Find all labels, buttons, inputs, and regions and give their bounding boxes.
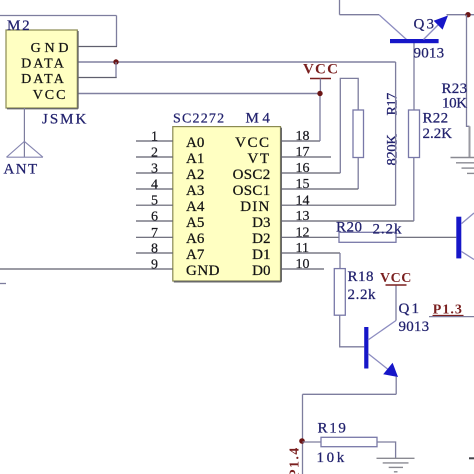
svg-text:Q1: Q1 bbox=[399, 301, 422, 317]
svg-text:VCC: VCC bbox=[303, 61, 339, 77]
wire DATA2 pin of M2 bbox=[77, 77, 117, 79]
transistor Q3 emitter slant bbox=[424, 17, 447, 40]
resistor R20 body bbox=[339, 232, 396, 242]
svg-text:R20: R20 bbox=[336, 220, 363, 236]
svg-text:ANT: ANT bbox=[4, 162, 39, 178]
power VCC symbol top bbox=[310, 79, 331, 94]
node junction on DATA wire bbox=[113, 59, 118, 64]
transistor Q3 emitter arrow bbox=[434, 16, 448, 30]
svg-text:6: 6 bbox=[151, 210, 158, 225]
svg-text:13: 13 bbox=[296, 209, 310, 224]
svg-text:DATA: DATA bbox=[21, 72, 66, 87]
svg-text:VCC: VCC bbox=[380, 271, 412, 286]
svg-text:10K: 10K bbox=[442, 96, 467, 112]
resistor R22 body bbox=[409, 110, 420, 158]
svg-text:D1: D1 bbox=[252, 247, 270, 263]
wire emitter bottom horizontal bbox=[303, 393, 397, 395]
ground under R23 bbox=[451, 158, 474, 174]
pin 7 wire bbox=[136, 236, 173, 238]
wire riser pin13 to R22 bbox=[413, 158, 415, 222]
svg-text:P1.4: P1.4 bbox=[288, 446, 303, 474]
wire GND pin of M2 bbox=[77, 46, 117, 48]
wire stub at left edge bbox=[0, 283, 6, 285]
wire R19 left bbox=[303, 441, 322, 443]
wire R23 riser from junction bbox=[467, 15, 470, 127]
pin 13 wire bbox=[281, 220, 414, 222]
svg-text:VT: VT bbox=[248, 151, 271, 167]
svg-text:M4: M4 bbox=[246, 110, 274, 126]
wire riser pin11 to R18 bbox=[339, 253, 341, 269]
svg-text:OSC2: OSC2 bbox=[233, 167, 271, 183]
svg-text:12: 12 bbox=[296, 226, 310, 241]
svg-text:A2: A2 bbox=[186, 167, 204, 183]
module M2 body bbox=[6, 30, 78, 109]
node junction at R19 bbox=[299, 438, 305, 444]
antenna ANT symbol bbox=[7, 141, 43, 157]
wire down left vertical to bottom edge bbox=[302, 394, 304, 474]
svg-text:8: 8 bbox=[151, 242, 158, 257]
svg-text:9: 9 bbox=[151, 258, 158, 273]
pin 16 wire bbox=[281, 172, 340, 174]
transistor Q1 emitter arrow bbox=[383, 363, 398, 377]
svg-text:DATA: DATA bbox=[21, 57, 66, 72]
svg-text:M2: M2 bbox=[7, 18, 31, 34]
port P1.3 underline bbox=[433, 315, 464, 317]
pin 12 wire to Q2 base bbox=[281, 236, 456, 238]
svg-text:A6: A6 bbox=[186, 231, 205, 247]
resistor R17 body bbox=[353, 110, 364, 158]
wire DATA pin of M2 to DIN riser bbox=[77, 61, 396, 63]
svg-text:VCC: VCC bbox=[235, 135, 270, 151]
svg-text:9013: 9013 bbox=[414, 46, 445, 62]
svg-text:A5: A5 bbox=[186, 215, 204, 231]
wire antenna stem bbox=[23, 108, 25, 157]
wire Q1 emitter down bbox=[395, 377, 397, 395]
node junction VCC wire bbox=[317, 91, 322, 96]
wire riser VCC to pin 18 bbox=[319, 94, 321, 142]
svg-text:JSMK: JSMK bbox=[42, 112, 88, 128]
resistor R19 body bbox=[321, 437, 377, 446]
wire P1.3 to right edge bbox=[429, 316, 474, 318]
svg-text:2.2K: 2.2K bbox=[423, 126, 453, 142]
resistor R18 body bbox=[334, 269, 345, 316]
svg-text:2.2k: 2.2k bbox=[373, 222, 403, 238]
svg-text:DIN: DIN bbox=[240, 199, 270, 215]
pin 9 wire to left edge bbox=[0, 268, 173, 270]
svg-text:5: 5 bbox=[151, 194, 158, 209]
svg-text:A3: A3 bbox=[186, 183, 204, 199]
transistor Q3 collector slant bbox=[379, 15, 407, 40]
transistor Q2 emitter slant bbox=[462, 252, 474, 260]
pin 8 wire bbox=[136, 252, 173, 254]
svg-text:1: 1 bbox=[151, 130, 158, 145]
svg-text:R17: R17 bbox=[384, 93, 400, 116]
svg-text:OSC1: OSC1 bbox=[233, 183, 271, 199]
pin 11 wire bbox=[281, 252, 340, 254]
svg-text:R19: R19 bbox=[318, 421, 348, 437]
svg-text:14: 14 bbox=[296, 193, 310, 208]
svg-text:16: 16 bbox=[296, 161, 310, 176]
transistor Q1 collector slant bbox=[368, 321, 396, 341]
pin 15 wire bbox=[281, 188, 358, 190]
pin 17 wire stub bbox=[281, 156, 331, 158]
svg-text:A1: A1 bbox=[186, 151, 204, 167]
wire VCC pin of M2 to VCC symbol bbox=[77, 93, 320, 95]
svg-text:4: 4 bbox=[151, 178, 158, 193]
svg-text:7: 7 bbox=[151, 226, 158, 241]
svg-text:17: 17 bbox=[296, 145, 310, 160]
svg-text:11: 11 bbox=[296, 241, 309, 256]
pin 4 wire bbox=[136, 188, 173, 190]
svg-text:A7: A7 bbox=[186, 247, 205, 263]
wire DIN riser bbox=[395, 62, 397, 205]
ground stub at right edge bbox=[469, 457, 474, 459]
wire DATA2 riser bbox=[115, 62, 117, 78]
svg-text:9013: 9013 bbox=[399, 319, 430, 335]
pin 6 wire bbox=[136, 220, 173, 222]
wire top-left horizontal from left edge bbox=[0, 15, 117, 17]
wire Q1 collector to VCC bbox=[395, 285, 397, 321]
pin 3 wire bbox=[136, 172, 173, 174]
IC U-M4 SC2272 body bbox=[173, 127, 281, 282]
pin 14 wire DIN bbox=[281, 204, 395, 206]
transistor Q2 collector slant bbox=[462, 213, 474, 224]
svg-text:2: 2 bbox=[151, 146, 158, 161]
svg-text:Q3: Q3 bbox=[414, 17, 437, 33]
svg-text:D0: D0 bbox=[252, 263, 270, 279]
pin 18 wire bbox=[281, 140, 320, 142]
svg-text:A0: A0 bbox=[186, 135, 204, 151]
svg-text:10: 10 bbox=[296, 257, 310, 272]
pin 2 wire bbox=[136, 156, 173, 158]
pin 5 wire bbox=[136, 204, 173, 206]
pin 1 wire bbox=[136, 140, 173, 142]
svg-text:SC2272: SC2272 bbox=[173, 111, 225, 126]
wire R18 bottom to Q1 base bbox=[340, 315, 365, 347]
wire R22 top to Q3 base bbox=[413, 43, 415, 110]
ground under R19 bbox=[377, 458, 415, 472]
svg-text:D2: D2 bbox=[252, 231, 270, 247]
node junction top right bbox=[465, 12, 470, 17]
svg-text:2.2k: 2.2k bbox=[348, 287, 377, 303]
transistor Q1 base bar bbox=[364, 327, 368, 369]
svg-text:R22: R22 bbox=[423, 111, 449, 127]
svg-text:R18: R18 bbox=[348, 269, 375, 285]
svg-text:A4: A4 bbox=[186, 199, 205, 215]
wire R19 right to ground bbox=[377, 442, 396, 458]
transistor Q3 base bar bbox=[390, 39, 439, 43]
svg-text:D3: D3 bbox=[252, 215, 270, 231]
svg-text:10k: 10k bbox=[317, 450, 347, 466]
pin 10 wire stub bbox=[281, 268, 324, 270]
transistor Q1 emitter slant bbox=[368, 354, 397, 377]
resistor R23 body edge at image border bbox=[469, 126, 471, 157]
svg-text:GND: GND bbox=[186, 263, 220, 279]
power VCC symbol at Q1 bbox=[386, 284, 407, 286]
transistor Q2 base bar bbox=[456, 217, 461, 259]
svg-text:18: 18 bbox=[296, 129, 310, 144]
transistor Q3 collector wires bbox=[340, 0, 380, 15]
wire Q3 emitter to right edge bbox=[447, 14, 474, 16]
wire OSC2 riser bbox=[340, 78, 358, 173]
wire R17 bottom to pin 15 bbox=[357, 158, 359, 190]
svg-text:GND: GND bbox=[31, 41, 73, 56]
svg-text:820K: 820K bbox=[384, 134, 400, 166]
svg-text:15: 15 bbox=[296, 177, 310, 192]
svg-text:3: 3 bbox=[151, 162, 158, 177]
svg-text:VCC: VCC bbox=[33, 88, 68, 103]
wire vertical down to GND pin bbox=[116, 16, 118, 47]
